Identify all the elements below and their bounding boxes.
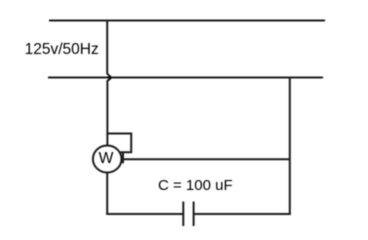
wire: bottom wire left of capacitor [106,213,183,215]
wire: wattmeter bottom to bottom wire [106,173,108,215]
wire: loop drop stub to output line [122,152,124,163]
wire: vertical feed upper segment with hop jog [107,21,109,77]
wire: bottom wire right of capacitor [194,213,291,215]
wire: right vertical branch [289,78,291,215]
wire: lower supply rail [48,77,323,79]
wire: wattmeter voltage-coil loop [107,134,131,153]
wattmeter U1 [93,146,122,173]
svg-text:C = 100 uF: C = 100 uF [158,177,233,194]
wire: vertical feed lower segment to wattmeter [107,80,109,147]
svg-text:W: W [99,150,114,167]
svg-text:125v/50Hz: 125v/50Hz [25,41,99,58]
capacitor C1 plate left [182,202,184,227]
wire: top supply rail [49,20,325,22]
capacitor C1 plate right [193,202,195,227]
wire: wattmeter output to right branch [121,158,290,160]
junction dot at lower rail crossing [108,75,112,80]
